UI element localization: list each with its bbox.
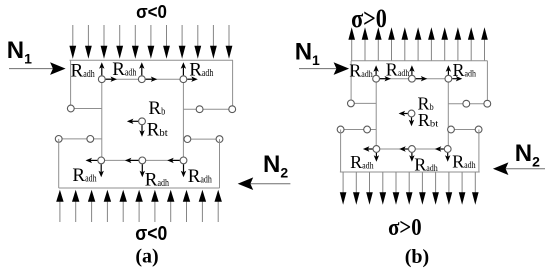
- upper contact node 1 (b): [373, 75, 380, 82]
- right lower vertical wire (a): [219, 139, 221, 188]
- lower adhesion arrow down 2 (b): [411, 153, 413, 157]
- lower adhesion arrow left 3 (a): [172, 159, 180, 161]
- bottom compressive stress arrows (a): [56, 190, 222, 222]
- svg-text:Rbt: Rbt: [147, 120, 168, 141]
- right mid node 1 (b): [463, 100, 470, 107]
- svg-text:Radh: Radh: [386, 59, 410, 79]
- left lower vertical wire (b): [340, 130, 342, 173]
- bond arrow left (a): [132, 120, 138, 122]
- svg-text:N2: N2: [515, 140, 540, 170]
- svg-text:Radh: Radh: [350, 152, 374, 172]
- svg-text:Radh: Radh: [452, 152, 476, 172]
- upper adhesion arrow up 2 (a): [141, 67, 143, 75]
- lower-left node 1 (a): [55, 136, 62, 143]
- upper adhesion arrow right 2 (a): [146, 78, 153, 80]
- top boundary line (a): [70, 59, 234, 61]
- lower-right horizontal wire (b): [448, 129, 479, 131]
- bond arrow down (b): [411, 117, 413, 121]
- upper adhesion arrow right 2 (b): [416, 78, 423, 80]
- lower adhesion arrow left 1 (a): [91, 159, 98, 161]
- svg-text:Radh: Radh: [414, 154, 438, 174]
- right mid node 1 (a): [196, 106, 203, 113]
- bond node (b): [408, 110, 415, 117]
- svg-text:Rb: Rb: [148, 98, 165, 119]
- bottom boundary line (a): [59, 187, 220, 189]
- left lower vertical wire (a): [58, 139, 60, 188]
- right upper vertical wire (a): [232, 60, 234, 105]
- svg-text:σ>0: σ>0: [351, 4, 387, 33]
- lower-right horizontal wire (a): [183, 138, 219, 140]
- lower contact node 3 (b): [444, 146, 451, 153]
- lower-right node 2 (a): [216, 136, 223, 143]
- svg-text:Radh: Radh: [188, 166, 213, 187]
- lower contact row line (b): [376, 148, 447, 150]
- lower contact node 3 (a): [180, 157, 187, 164]
- lower contact row line (a): [101, 159, 183, 161]
- upper adhesion arrow up 3 (b): [447, 70, 449, 75]
- left upper vertical wire (b): [350, 61, 352, 100]
- N1 force arrow (a): [9, 68, 53, 70]
- svg-text:Radh: Radh: [72, 165, 97, 186]
- svg-text:σ>0: σ>0: [388, 215, 422, 241]
- lower adhesion arrow down 3 (a): [183, 164, 185, 172]
- lower contact node 2 (b): [409, 146, 416, 153]
- svg-text:Radh: Radh: [112, 59, 137, 80]
- lower-left horizontal wire (a): [59, 138, 102, 140]
- svg-text:σ<0: σ<0: [136, 2, 167, 22]
- svg-text:Rbt: Rbt: [418, 110, 439, 130]
- svg-text:σ<0: σ<0: [135, 223, 167, 245]
- bottom boundary line (b): [340, 171, 480, 173]
- lower adhesion arrow left 2 (a): [130, 159, 139, 161]
- lower-right node 1 (a): [184, 136, 191, 143]
- svg-text:(a): (a): [135, 246, 158, 268]
- lower contact node 1 (a): [98, 157, 105, 164]
- upper adhesion arrow up 1 (b): [375, 70, 377, 75]
- right mid node 2 (a): [229, 106, 236, 113]
- right lower vertical wire (b): [478, 130, 480, 173]
- upper adhesion arrow up 2 (b): [411, 70, 413, 75]
- bottom tensile stress arrows (b): [340, 172, 479, 205]
- lower-left node 2 (b): [364, 126, 371, 133]
- N1 force arrow (b): [299, 68, 337, 70]
- top tensile stress arrows (b): [348, 27, 487, 61]
- upper contact node 1 (a): [98, 76, 105, 83]
- vertical wire below upper-right node (b): [447, 79, 449, 149]
- vertical wire below upper-left node (b): [375, 79, 377, 149]
- upper adhesion arrow right 3 (a): [187, 78, 193, 80]
- top boundary line (b): [351, 60, 487, 62]
- svg-text:N1: N1: [295, 39, 320, 69]
- N2 force arrow (b): [505, 168, 545, 170]
- upper contact node 3 (b): [445, 75, 452, 82]
- left mid horizontal wire (a): [71, 108, 102, 110]
- upper adhesion arrow right 1 (a): [106, 78, 112, 80]
- lower adhesion arrow down 2 (a): [141, 164, 143, 172]
- lower adhesion arrow left 2 (b): [404, 148, 408, 150]
- lower adhesion arrow left 3 (b): [440, 148, 444, 150]
- bond arrow left (b): [404, 113, 408, 115]
- N2 force arrow (a): [250, 183, 290, 185]
- lower-left horizontal wire (b): [341, 129, 377, 131]
- right upper vertical wire (b): [486, 61, 488, 100]
- lower contact node 1 (b): [373, 146, 380, 153]
- left mid node (b): [348, 100, 355, 107]
- lower adhesion arrow left 1 (b): [368, 148, 373, 150]
- left mid horizontal wire (b): [351, 102, 376, 104]
- vertical wire below upper-left node (a): [101, 79, 103, 160]
- svg-text:Radh: Radh: [349, 60, 373, 80]
- svg-text:Radh: Radh: [145, 169, 170, 190]
- upper contact row line (b): [376, 78, 448, 80]
- upper contact row line (a): [102, 78, 184, 80]
- svg-text:Radh: Radh: [453, 60, 477, 80]
- svg-text:N2: N2: [263, 151, 288, 181]
- right mid horizontal wire (a): [183, 108, 232, 110]
- svg-text:Radh: Radh: [71, 61, 96, 82]
- lower adhesion arrow down 1 (b): [375, 153, 377, 157]
- left upper vertical wire (a): [70, 60, 72, 105]
- svg-text:N1: N1: [7, 37, 32, 66]
- vertical wire below upper-right node (a): [182, 79, 184, 160]
- upper contact node 2 (b): [409, 75, 416, 82]
- bond arrow down (a): [141, 125, 143, 132]
- upper adhesion arrow up 3 (a): [182, 67, 184, 75]
- lower-left node 1 (b): [337, 126, 344, 133]
- svg-text:(b): (b): [405, 246, 429, 268]
- upper adhesion arrow up 1 (a): [101, 67, 103, 75]
- top compressive stress arrows (a): [69, 25, 232, 59]
- lower-left node 2 (a): [87, 136, 94, 143]
- right mid horizontal wire (b): [448, 103, 487, 105]
- lower adhesion arrow down 3 (b): [447, 153, 449, 157]
- upper adhesion arrow right 3 (b): [452, 78, 457, 80]
- left mid node (a): [67, 105, 74, 112]
- lower-right node 1 (b): [448, 126, 455, 133]
- lower adhesion arrow down 1 (a): [100, 164, 102, 172]
- upper adhesion arrow right 1 (b): [380, 78, 386, 80]
- lower-right node 2 (b): [475, 126, 482, 133]
- bond node (a): [139, 118, 146, 125]
- upper contact node 3 (a): [180, 76, 187, 83]
- lower contact node 2 (a): [139, 157, 146, 164]
- right mid node 2 (b): [484, 100, 491, 107]
- upper contact node 2 (a): [138, 76, 145, 83]
